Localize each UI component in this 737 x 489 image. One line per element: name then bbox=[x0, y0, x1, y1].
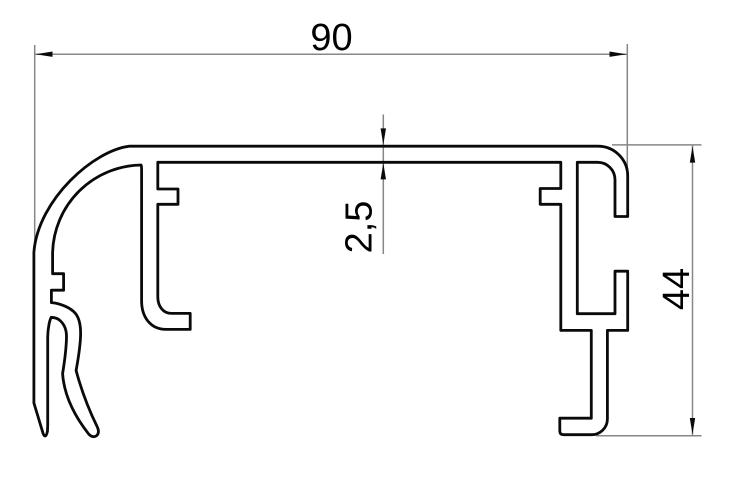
svg-text:44: 44 bbox=[656, 268, 698, 310]
svg-text:2,5: 2,5 bbox=[339, 201, 381, 254]
svg-text:90: 90 bbox=[310, 17, 352, 59]
